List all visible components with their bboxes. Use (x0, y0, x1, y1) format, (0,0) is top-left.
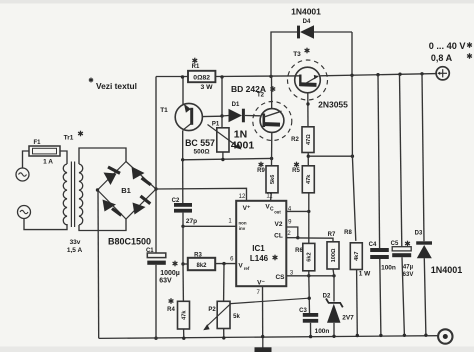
svg-text:ref: ref (244, 266, 250, 271)
node T3 bottom (306, 102, 309, 105)
wire pin2 to R7 (298, 238, 333, 242)
node D4 left junction (269, 75, 272, 78)
node T2 collector line (270, 157, 273, 160)
wire bridge minus to ground rail (97, 190, 100, 338)
svg-text:5k: 5k (233, 314, 240, 320)
node D1 P1 T1 junction (220, 114, 223, 117)
zener diode D2 (326, 299, 343, 308)
wire T3 emitter right (320, 74, 437, 76)
ground rail (99, 336, 438, 339)
wire D3 to ground (424, 258, 426, 335)
fuse F1 (29, 146, 60, 156)
wire pin1 node down to R3 node (182, 226, 184, 264)
node R2 R5 junction (307, 155, 310, 158)
svg-text:D1: D1 (232, 102, 240, 108)
node P2 junction (222, 262, 225, 265)
wire R9 to IC pin11 (270, 193, 273, 201)
wire T1 collector to C2 (182, 160, 184, 203)
node output bus junction (351, 155, 354, 158)
node D2 ground (332, 335, 335, 338)
wire D4 right (351, 32, 353, 75)
node pin2 pin9 junction (296, 236, 299, 239)
svg-text:B80C1500: B80C1500 (108, 237, 151, 247)
node P1 junction top (220, 75, 223, 78)
capacitor C4 (370, 248, 389, 252)
node C3 ground (309, 335, 312, 338)
star mark C1 (174, 261, 176, 267)
svg-text:C3: C3 (299, 308, 307, 314)
wire C5 to ground (402, 257, 404, 335)
wire T3 bottom to R2 (307, 93, 309, 127)
node R8 ground (356, 334, 359, 337)
wire D3 column (422, 74, 424, 242)
svg-text:0Ω82: 0Ω82 (193, 75, 210, 82)
star mark L146 (274, 255, 276, 261)
star mark R1 (194, 58, 196, 64)
wire pin3 node to C3 (308, 276, 311, 313)
svg-text:C5: C5 (391, 241, 399, 247)
bridge diode left-top (104, 173, 117, 186)
node pin4 junction (307, 210, 310, 213)
wire P1 bottom (222, 152, 224, 160)
star mark T3 (306, 48, 308, 54)
bridge diode bottom-right (133, 203, 146, 215)
node P2 ground (222, 336, 225, 339)
node T1 emitter junction (181, 75, 184, 78)
wire C3 to ground (310, 323, 312, 337)
svg-text:0 ... 40 V: 0 ... 40 V (429, 41, 467, 51)
svg-text:1,5 A: 1,5 A (67, 247, 83, 254)
svg-text:out: out (274, 210, 281, 215)
capacitor C5 (392, 247, 411, 251)
svg-text:R5: R5 (292, 168, 300, 174)
wire top rail middle (215, 75, 294, 78)
wire R4 to ground (183, 329, 185, 338)
wire R3 right to pin6 (215, 263, 236, 265)
ground symbol (262, 338, 264, 348)
svg-text:V2: V2 (275, 221, 283, 228)
note vezi textul (90, 78, 92, 83)
star mark R9 (260, 162, 262, 168)
wire D4 left (271, 32, 298, 76)
wire C4 column (378, 75, 380, 248)
svg-text:R7: R7 (328, 232, 336, 238)
svg-text:R9: R9 (257, 168, 265, 174)
node D3 ground (424, 334, 427, 337)
svg-text:D2: D2 (323, 294, 331, 300)
diode D3 (416, 241, 432, 244)
svg-text:R4: R4 (167, 307, 175, 313)
wire secondary top to bridge (79, 148, 126, 164)
wire T2 top to rail (271, 76, 273, 108)
wire output bus down (352, 75, 356, 241)
svg-text:C1: C1 (146, 248, 154, 254)
svg-text:R3: R3 (194, 253, 202, 259)
svg-text:63V: 63V (159, 278, 172, 285)
svg-text:BC 557: BC 557 (185, 138, 215, 148)
resistor R7 (327, 242, 339, 269)
svg-text:P1: P1 (212, 122, 220, 128)
star mark 40V (469, 42, 471, 48)
node R4 ground (182, 337, 185, 340)
transistor T3 emitter arrow (300, 82, 317, 87)
svg-text:T2: T2 (257, 93, 265, 99)
node pin7 ground (261, 335, 264, 338)
svg-text:B1: B1 (121, 186, 131, 195)
star mark 0,8A (469, 53, 471, 59)
resistor R8 (350, 243, 362, 270)
node T1 collector (181, 158, 184, 161)
svg-text:4001: 4001 (231, 140, 255, 152)
svg-text:12: 12 (239, 194, 246, 200)
svg-text:47k: 47k (306, 174, 312, 184)
svg-text:C4: C4 (369, 242, 377, 248)
resistor R2 (302, 127, 314, 153)
node wiper junction (308, 297, 311, 300)
wire pin6 node to P2 (223, 264, 225, 302)
transformer Tr1 secondary winding (79, 164, 83, 225)
capacitor C2 (174, 203, 192, 207)
svg-text:1000µ: 1000µ (160, 270, 180, 277)
node C4 ground (379, 334, 382, 337)
transistor T2 dashed outline (253, 102, 292, 141)
svg-text:T3: T3 (293, 51, 301, 58)
svg-text:T1: T1 (160, 107, 168, 114)
wire IC pin3 (286, 275, 334, 277)
potentiometer P1 (217, 128, 229, 152)
svg-text:47µ: 47µ (403, 265, 414, 271)
wire pin3 node to D2 (333, 276, 335, 302)
node C5 ground (403, 334, 406, 337)
potentiometer P1 wiper arrow (208, 125, 238, 147)
wire IC pin4 (286, 210, 309, 212)
star mark R4 (170, 298, 172, 304)
svg-text:33v: 33v (70, 239, 81, 246)
svg-text:2N3055: 2N3055 (318, 100, 348, 110)
svg-text:R8: R8 (344, 230, 352, 236)
svg-text:1N4001: 1N4001 (431, 265, 463, 275)
wire IC pin2 (286, 237, 298, 239)
svg-text:3 W: 3 W (200, 84, 213, 91)
bridge B1 diamond (98, 162, 157, 220)
svg-text:2V7: 2V7 (342, 315, 354, 322)
wire R8 to ground (356, 270, 359, 336)
svg-text:V⁺: V⁺ (243, 205, 251, 212)
wire T1 collector down (182, 130, 184, 159)
wire node to P1 (221, 116, 223, 128)
wire R3 left (183, 263, 188, 265)
svg-text:11: 11 (266, 194, 273, 200)
wire C2 to pin1 line (182, 213, 184, 227)
svg-text:0,8 A: 0,8 A (431, 53, 453, 63)
star mark Tr1 (80, 131, 82, 137)
svg-text:CS: CS (275, 274, 285, 281)
star mark C5 (407, 241, 409, 247)
output minus terminal (438, 329, 452, 343)
wire secondary bottom to bridge (79, 219, 126, 231)
svg-text:Tr1: Tr1 (64, 135, 74, 142)
resistor R6 (303, 243, 315, 270)
svg-text:500Ω: 500Ω (193, 149, 209, 156)
node pin1 junction (181, 225, 184, 228)
AC mains terminal upper (16, 168, 29, 181)
transformer Tr1 primary winding (63, 164, 67, 225)
svg-text:27p: 27p (186, 218, 197, 225)
svg-text:L146: L146 (250, 254, 269, 263)
svg-text:C2: C2 (172, 198, 180, 204)
wire T1 emitter up (182, 77, 184, 104)
svg-text:Vezi textul: Vezi textul (96, 81, 137, 91)
node output rail D4 (350, 74, 353, 77)
diode D4 (297, 26, 300, 39)
transistor T1 (175, 103, 202, 130)
star mark BD242A (272, 86, 274, 92)
wire R4 column (182, 264, 184, 301)
wire C4 to ground (380, 259, 381, 335)
svg-text:47Ω: 47Ω (306, 134, 312, 145)
wire IC pin7 to ground (262, 286, 264, 336)
wire R5 to pin4 node (308, 193, 310, 244)
node pin3 R6 junction (307, 274, 310, 277)
svg-text:inv: inv (239, 226, 246, 231)
wire upper terminal to fuse (23, 151, 30, 168)
bridge diode top-right (132, 167, 145, 180)
svg-text:1 A: 1 A (43, 159, 53, 166)
svg-text:F1: F1 (33, 140, 41, 146)
svg-text:100Ω: 100Ω (331, 248, 337, 262)
resistor R5 (302, 166, 314, 193)
op-amp regulator IC1 box (236, 201, 286, 286)
svg-text:1N4001: 1N4001 (291, 7, 321, 17)
svg-text:8k2: 8k2 (196, 263, 207, 269)
svg-text:V: V (238, 263, 243, 270)
node pin3 R7 junction (332, 274, 335, 277)
wire R2 to R5 (307, 153, 309, 166)
node output rail C5 (398, 73, 401, 76)
wire T1 P1 R9 node line (183, 158, 272, 159)
svg-text:P2: P2 (208, 307, 216, 313)
svg-text:R6: R6 (295, 248, 303, 254)
wire top rail left (156, 76, 188, 78)
potentiometer P2 wiper arrow (207, 298, 309, 326)
node plus corner (154, 187, 157, 190)
bridge diode left-bottom (103, 200, 117, 212)
svg-text:R1: R1 (192, 64, 200, 70)
wire fuse to transformer primary (60, 151, 67, 164)
transformer Tr1 core (70, 162, 72, 228)
wire lower terminal to primary bottom (24, 219, 67, 230)
AC mains terminal lower (18, 206, 31, 219)
transistor T3 (295, 67, 321, 93)
svg-text:CL: CL (274, 233, 283, 240)
wire R7 bottom (333, 269, 334, 276)
capacitor C1 (147, 253, 166, 258)
wire D2 to ground (333, 323, 335, 337)
svg-text:D3: D3 (415, 231, 423, 237)
wire junction to output bus (308, 155, 352, 157)
wire IC pin1 (183, 225, 236, 227)
node output rail C4 (376, 73, 379, 76)
resistor R4 (178, 301, 190, 329)
resistor R1 (188, 71, 215, 82)
node P1 bottom (221, 158, 224, 161)
wire T1 base (202, 115, 222, 117)
svg-text:IC1: IC1 (252, 244, 265, 253)
node output rail D3 (420, 72, 423, 75)
wire C5 column (400, 74, 402, 247)
svg-text:100n: 100n (315, 328, 330, 335)
transistor T3 dashed outline (288, 60, 328, 100)
svg-text:5k6: 5k6 (270, 175, 276, 184)
wire P2 to ground (223, 329, 225, 338)
wire plus bus vertical (155, 77, 157, 254)
svg-text:1 W: 1 W (359, 271, 371, 278)
svg-text:63V: 63V (403, 272, 414, 278)
wire plus rail to IC V+ (156, 188, 247, 201)
wire rail to D1 node (221, 77, 223, 116)
svg-text:V⁻: V⁻ (257, 280, 265, 287)
capacitor C3 (303, 313, 318, 317)
resistor R3 (188, 258, 215, 270)
svg-text:non: non (238, 221, 246, 226)
star mark R5 (296, 162, 298, 168)
wire C1 to ground (155, 265, 157, 338)
svg-text:4k7: 4k7 (354, 251, 360, 260)
node R3 junction (181, 262, 184, 265)
transistor T2 (260, 109, 284, 133)
svg-text:47k: 47k (181, 310, 187, 320)
wire IC pin9 (286, 227, 298, 238)
node bridge minus corner (96, 188, 99, 191)
wire T2 bottom to R9 (271, 132, 273, 166)
svg-text:D4: D4 (303, 19, 311, 25)
resistor R9 (266, 166, 278, 193)
svg-text:R2: R2 (291, 137, 299, 143)
output plus terminal (436, 67, 449, 80)
wire R6 bottom (308, 271, 310, 276)
svg-text:6k2: 6k2 (307, 252, 313, 261)
transistor T2 emitter arrow (263, 122, 281, 127)
svg-text:100n: 100n (381, 265, 396, 272)
potentiometer P2 (217, 301, 230, 328)
diode D1 (222, 115, 229, 118)
